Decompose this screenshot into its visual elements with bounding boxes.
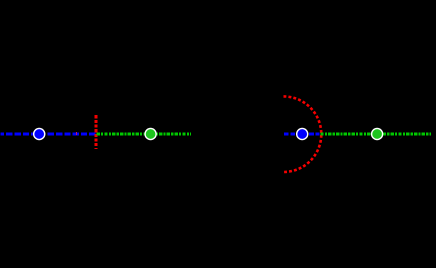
right diagram: blue point marker xyxy=(297,128,308,139)
right diagram: red dotted half-circle boundary xyxy=(284,96,322,172)
left diagram: small crimson tick under blue dash xyxy=(76,132,77,135)
right diagram: green dash-dot segment xyxy=(320,132,431,135)
right diagram: green point marker xyxy=(372,128,383,139)
right diagram: blue dashed radius segment xyxy=(284,132,320,135)
left diagram: red dotted vertical boundary line xyxy=(95,115,98,149)
left diagram: green point marker xyxy=(145,128,156,139)
left diagram: green dash-dot segment xyxy=(97,132,191,135)
left diagram: blue point marker xyxy=(34,128,45,139)
left diagram: blue dashed real-axis segment xyxy=(1,132,97,135)
